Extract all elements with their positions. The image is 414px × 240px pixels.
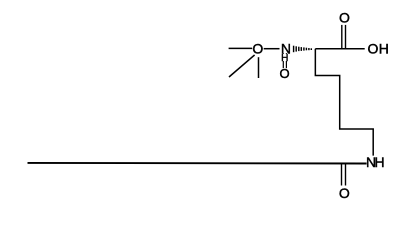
svg-text:O: O <box>252 41 263 57</box>
svg-text:O: O <box>339 10 350 26</box>
carboxyl double bond C=O <box>342 25 346 49</box>
side chain bonds alpha C to amide N <box>315 49 373 156</box>
bond CH3 diagonal methyl to O <box>229 55 255 77</box>
bond O-N <box>264 48 280 50</box>
atom O carboxyl carbonyl oxygen <box>339 10 350 26</box>
bond CH3 lower methyl to O <box>258 57 260 78</box>
atom H on nitrogen <box>281 53 288 64</box>
atom O below N <box>280 66 290 81</box>
bond CH3 left methyl to O <box>229 47 253 49</box>
hashed wedge bond N to alpha carbon <box>294 46 312 53</box>
atom NH amide nitrogen <box>366 154 385 170</box>
bond alpha C to carboxyl C to OH <box>315 48 364 50</box>
atom O amide carbonyl oxygen <box>339 185 350 201</box>
svg-text:O: O <box>339 185 350 201</box>
svg-text:H: H <box>281 53 288 64</box>
atom O tert-butoxy oxygen <box>252 41 263 57</box>
double bond N=O <box>283 53 286 68</box>
long alkyl chain bond line <box>28 162 367 165</box>
svg-text:O: O <box>280 66 290 81</box>
svg-text:H: H <box>379 41 389 57</box>
atom N alpha nitrogen <box>281 41 291 57</box>
amide double bond C=O <box>342 164 346 186</box>
svg-text:O: O <box>368 41 379 57</box>
atom OH carboxylic acid <box>368 41 389 57</box>
svg-text:H: H <box>375 154 385 170</box>
